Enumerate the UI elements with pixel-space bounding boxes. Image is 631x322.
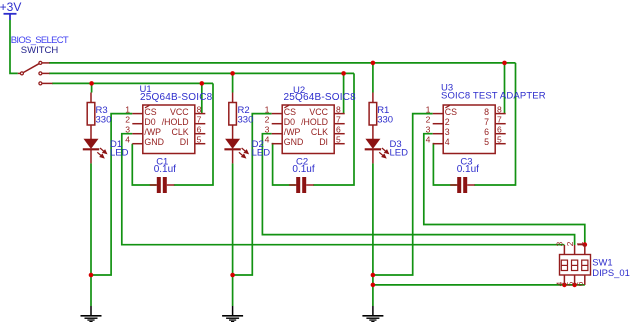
svg-text:3: 3 — [125, 125, 130, 135]
svg-text:1: 1 — [575, 241, 585, 246]
wire net select rail 1 (top) — [49, 62, 516, 64]
wire LED cathode down to ground (chain 1) — [90, 163, 92, 306]
wire U3 pin4 GND down to cap left — [433, 144, 457, 185]
svg-text:GND: GND — [284, 137, 304, 147]
svg-text:4: 4 — [125, 135, 130, 145]
U1 pin 2 stub — [132, 123, 143, 125]
svg-text:CS: CS — [445, 107, 457, 117]
svg-text:/HOLD: /HOLD — [301, 117, 328, 127]
wire rail1 drop to C3 right — [474, 63, 515, 185]
svg-text:6: 6 — [197, 125, 202, 135]
wire U1 pin1 CS to LED line — [91, 114, 132, 275]
U1 CS overline tick — [145, 105, 149, 108]
U3 pin 1 stub — [433, 113, 444, 115]
resistor R3 330 — [90, 93, 92, 103]
wire rail drop to resistor (chain 2) — [232, 73, 234, 92]
svg-text:330: 330 — [96, 115, 112, 126]
U1 pin 1 stub — [132, 113, 143, 115]
switch BIOS_SELECT pole — [18, 72, 20, 74]
svg-text:1: 1 — [265, 105, 270, 115]
junction CS/LED chain 2 — [230, 273, 235, 278]
wire rail3 drop to C1 right — [174, 83, 213, 185]
U2 pin 8 stub — [334, 113, 345, 115]
wire ground rail to SW1 bottom pins — [373, 284, 585, 286]
svg-text:3: 3 — [426, 125, 431, 135]
svg-text:5: 5 — [497, 135, 502, 145]
svg-text:1: 1 — [426, 105, 431, 115]
svg-text:D0: D0 — [284, 117, 295, 127]
svg-text:25Q64B-SOIC8: 25Q64B-SOIC8 — [284, 92, 357, 103]
svg-text:LED: LED — [252, 147, 271, 158]
U3 pin 6 stub — [495, 133, 506, 135]
wire net select rail 3 (bottom) — [52, 82, 213, 84]
resistor R2 330 — [232, 93, 234, 103]
svg-text:VCC: VCC — [170, 107, 189, 117]
U3 pin 5 stub — [495, 143, 506, 145]
svg-text:2: 2 — [125, 115, 130, 125]
ground symbol 2 — [222, 306, 243, 322]
junction SW1 pin1 top — [583, 242, 588, 247]
switch lever — [23, 64, 39, 73]
SW1 pin 4 bottom stub — [563, 275, 565, 285]
U2 pin 7 stub — [334, 123, 345, 125]
svg-text:0.1uf: 0.1uf — [292, 164, 314, 175]
svg-text:CLK: CLK — [311, 127, 328, 137]
junction rail2 / U2 VCC — [341, 71, 346, 76]
junction rail1 / U3 VCC — [502, 61, 507, 66]
junction SW1 pin5 bottom — [572, 283, 577, 288]
capacitor C1 0.1uf — [150, 184, 158, 186]
wire U3 pin1 CS to LED line — [373, 114, 433, 275]
SW1 pin 1 top stub — [578, 244, 585, 246]
capacitor C3 0.1uf — [450, 184, 458, 186]
svg-text:4: 4 — [426, 135, 431, 145]
junction CS/LED chain 1 — [89, 273, 94, 278]
U3 pin 7 stub — [495, 123, 506, 125]
SW1 element 2 — [572, 260, 578, 270]
SW1 element 3 — [582, 260, 588, 270]
SW1 element 1 — [561, 260, 567, 270]
svg-text:CLK: CLK — [171, 127, 188, 137]
svg-text:VCC: VCC — [309, 107, 328, 117]
junction ground rail / LED line 3 — [371, 283, 376, 288]
svg-text:4: 4 — [265, 135, 270, 145]
U2 pin 1 stub — [272, 113, 283, 115]
wire LED cathode down to ground (chain 2) — [232, 163, 234, 306]
ground symbol 3 — [362, 306, 383, 322]
svg-text:7: 7 — [497, 115, 502, 125]
junction rail3 / R3 — [89, 81, 94, 86]
wire rail drop to resistor (chain 1) — [91, 83, 93, 92]
wire U1 pin3 /WP to SW1 pin3 — [122, 134, 565, 245]
svg-text:CS: CS — [144, 107, 156, 117]
U2 pin 5 stub — [334, 143, 345, 145]
resistor R1 330 — [372, 93, 374, 103]
IC U3 body — [443, 105, 495, 154]
LED D3 — [366, 139, 380, 148]
svg-text:7: 7 — [336, 115, 341, 125]
U3 pin 3 stub — [433, 133, 444, 135]
svg-text:330: 330 — [377, 115, 393, 126]
switch throw contact 1 — [39, 61, 42, 64]
ground symbol 1 — [81, 306, 102, 322]
U3 pin 2 stub — [433, 123, 444, 125]
LED D1 — [84, 139, 98, 148]
capacitor C2 0.1uf — [289, 184, 297, 186]
svg-text:/WP: /WP — [284, 127, 301, 137]
wire rail drop to resistor (chain 3) — [372, 63, 374, 93]
svg-text:3: 3 — [445, 127, 450, 137]
svg-text:6: 6 — [575, 281, 585, 286]
svg-text:6: 6 — [484, 127, 489, 137]
wire U2 pin3 /WP to SW1 pin2 — [262, 134, 574, 245]
svg-text:3: 3 — [265, 125, 270, 135]
IC U2 body — [282, 105, 334, 154]
U1 pin 4 stub — [132, 143, 143, 145]
svg-text:6: 6 — [336, 125, 341, 135]
svg-text:4: 4 — [555, 281, 565, 286]
svg-text:DIPS_01: DIPS_01 — [592, 267, 630, 278]
junction SW1 pin4 bottom — [562, 283, 567, 288]
svg-text:/HOLD: /HOLD — [162, 117, 189, 127]
svg-text:5: 5 — [484, 137, 489, 147]
svg-text:8: 8 — [197, 105, 202, 115]
wire rail1 to U3 VCC pin 8 — [504, 63, 506, 114]
svg-text:0.1uf: 0.1uf — [457, 164, 479, 175]
SW1 pin 6 bottom stub — [584, 275, 586, 285]
wire rail2 drop to C2 right — [313, 73, 354, 185]
U3 CS overline tick — [445, 105, 449, 108]
svg-text:25Q64B-SOIC8: 25Q64B-SOIC8 — [140, 92, 213, 103]
DIP switch SW1 body — [560, 255, 591, 276]
switch throw contact 3 — [39, 82, 42, 85]
svg-text:DI: DI — [180, 137, 189, 147]
SW1 pin 5 bottom stub — [574, 275, 576, 285]
wire U2 pin4 GND down to cap left — [272, 144, 296, 185]
U3 pin 8 stub — [495, 113, 506, 115]
svg-text:LED: LED — [110, 147, 129, 158]
wire U1 pin4 GND down to cap left — [132, 144, 156, 185]
U1 pin 5 stub — [195, 143, 206, 145]
wire +3V supply to switch pole — [10, 20, 18, 73]
wire net select rail 2 (middle) — [49, 72, 354, 74]
U2 pin 2 stub — [272, 123, 283, 125]
U1 pin 3 stub — [132, 133, 143, 135]
junction rail3 / U1 VCC — [200, 81, 205, 86]
svg-text:SWITCH: SWITCH — [21, 45, 59, 56]
U3 pin 4 stub — [433, 143, 444, 145]
SW1 pin 3 top stub — [563, 245, 565, 255]
U2 pin 6 stub — [334, 133, 345, 135]
svg-text:GND: GND — [144, 137, 164, 147]
wire rail3 to U1 VCC pin 8 — [201, 83, 203, 113]
svg-text:6: 6 — [497, 125, 502, 135]
svg-text:8: 8 — [484, 107, 489, 117]
svg-text:8: 8 — [336, 105, 341, 115]
svg-text:+3V: +3V — [0, 0, 21, 14]
svg-text:0.1uf: 0.1uf — [154, 164, 176, 175]
IC U1 body — [143, 105, 195, 154]
svg-text:7: 7 — [484, 117, 489, 127]
svg-text:2: 2 — [426, 115, 431, 125]
U1 pin 6 stub — [195, 133, 206, 135]
svg-text:1: 1 — [125, 105, 130, 115]
U1 pin 8 stub — [195, 113, 206, 115]
svg-text:7: 7 — [197, 115, 202, 125]
U1 pin 7 stub — [195, 123, 206, 125]
svg-text:2: 2 — [565, 241, 575, 246]
svg-text:5: 5 — [336, 135, 341, 145]
svg-text:2: 2 — [265, 115, 270, 125]
wire U2 pin1 CS to LED line — [233, 114, 272, 275]
svg-text:5: 5 — [197, 135, 202, 145]
svg-text:SOIC8 TEST ADAPTER: SOIC8 TEST ADAPTER — [441, 91, 546, 102]
U2 pin 3 stub — [272, 133, 283, 135]
svg-text:LED: LED — [390, 147, 409, 158]
svg-text:4: 4 — [445, 137, 450, 147]
junction rail2 / R2 — [230, 71, 235, 76]
U2 pin 4 stub — [272, 143, 283, 145]
svg-text:5: 5 — [565, 281, 575, 286]
svg-text:2: 2 — [445, 117, 450, 127]
LED D2 — [226, 139, 240, 148]
wire rail2 to U2 VCC pin 8 — [343, 73, 345, 113]
junction rail1 / R1 — [371, 61, 376, 66]
svg-text:330: 330 — [238, 115, 254, 126]
U2 CS overline tick — [284, 105, 288, 108]
junction CS/LED chain 3 — [371, 273, 376, 278]
svg-text:CS: CS — [284, 107, 296, 117]
wire LED cathode down to ground (chain 3) — [372, 163, 374, 306]
svg-text:DI: DI — [319, 137, 328, 147]
svg-text:SW1: SW1 — [592, 256, 612, 267]
SW1 pin 2 top stub — [574, 245, 576, 255]
svg-text:/WP: /WP — [144, 127, 161, 137]
switch throw contact 2 — [39, 72, 42, 75]
svg-text:3: 3 — [555, 241, 565, 246]
wire U3 pin3 /WP to SW1 pin1 — [424, 134, 585, 245]
svg-text:D0: D0 — [144, 117, 155, 127]
svg-text:8: 8 — [497, 105, 502, 115]
